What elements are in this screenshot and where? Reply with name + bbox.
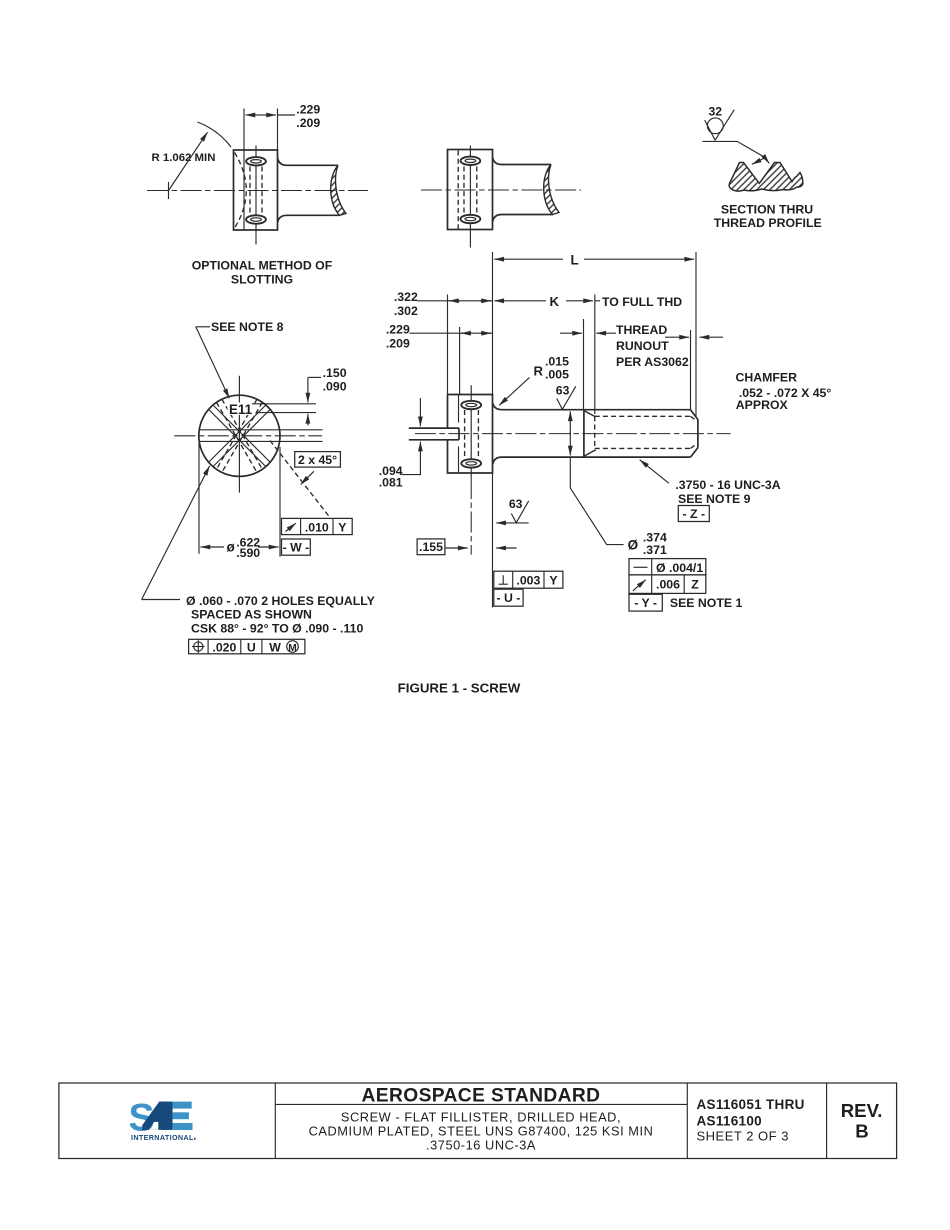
top view shank break sliver (hatched): [544, 165, 559, 215]
svg-text:THREAD PROFILE: THREAD PROFILE: [714, 216, 822, 230]
svg-text:SEE NOTE 1: SEE NOTE 1: [670, 596, 743, 610]
2 x 45 box: [295, 452, 341, 468]
svg-text:SECTION THRU: SECTION THRU: [721, 203, 813, 217]
left view hidden hole walls: [249, 167, 251, 216]
svg-text:63: 63: [556, 383, 570, 397]
svg-text:.155: .155: [419, 540, 443, 554]
head right face extension line: [492, 473, 494, 608]
svg-text:SCREW - FLAT FILLISTER, DRILLE: SCREW - FLAT FILLISTER, DRILLED HEAD,: [341, 1109, 621, 1124]
slot side edges: [458, 395, 460, 423]
E11 marking label: [228, 403, 255, 416]
leader double arrows to thread flanks: [752, 158, 765, 165]
full thread extension line: [594, 295, 596, 415]
straightness frame: [629, 559, 706, 575]
svg-text:.322: .322: [394, 290, 418, 304]
svg-text:- Y -: - Y -: [634, 596, 657, 610]
dimension .150/.090 extension lines: [252, 403, 316, 405]
slot position chords horizontal: [199, 429, 322, 431]
diameter .374/.371 leader: [570, 457, 623, 544]
head left face extension line: [447, 295, 449, 395]
svg-text:R: R: [534, 364, 544, 379]
svg-text:PER AS3062: PER AS3062: [616, 355, 689, 369]
svg-text:.010: .010: [305, 520, 329, 534]
svg-text:M: M: [288, 643, 297, 654]
dimension L arrows: [494, 258, 563, 260]
top view bottom drilled hole: [461, 215, 481, 223]
bottom drilled hole: [461, 459, 481, 467]
left view shank top edge with fillet: [278, 158, 339, 166]
svg-text:CHAMFER: CHAMFER: [736, 371, 798, 385]
thread minor diameter hidden lines: [594, 416, 596, 448]
svg-text:THREAD: THREAD: [616, 323, 667, 337]
diameter .622/.590 extension lines: [198, 443, 200, 554]
dimension .322/.302 line and arrows: [418, 300, 493, 302]
diameter .374/.371 arrows: [569, 411, 571, 435]
svg-text:E11: E11: [229, 402, 253, 417]
svg-text:- Z -: - Z -: [683, 507, 706, 521]
R 1.062 MIN arc: [198, 122, 232, 147]
title block divider number/rev: [826, 1083, 828, 1159]
chamfer arrows: [665, 336, 689, 338]
thread runout extension line: [583, 319, 585, 410]
left view hidden slot curve: [235, 153, 247, 229]
svg-text:.006: .006: [656, 578, 680, 592]
SAE logo: [129, 1096, 197, 1142]
.3750-16 UNC-3A leader: [640, 460, 669, 483]
dimension .155 box: [417, 539, 445, 555]
thread profile section (hatched): [729, 163, 803, 192]
svg-text:.371: .371: [643, 543, 667, 557]
datum Y box: [629, 594, 662, 611]
svg-text:Z: Z: [691, 578, 699, 592]
R fillet leader: [499, 378, 529, 406]
left view vertical centerline: [255, 146, 257, 245]
title block outer border: [59, 1083, 897, 1159]
svg-text:K: K: [550, 294, 560, 309]
svg-text:.3750 - 16 UNC-3A: .3750 - 16 UNC-3A: [675, 478, 780, 492]
slot position chords 60deg dashed: [216, 402, 256, 472]
holes note leader: [142, 599, 180, 601]
title block horizontal divider: [275, 1103, 687, 1105]
2 x 45 leader: [301, 471, 314, 484]
slot projection top edge: [409, 427, 459, 429]
svg-text:.003: .003: [516, 574, 540, 588]
svg-text:FIGURE 1 - SCREW: FIGURE 1 - SCREW: [398, 681, 521, 696]
left view horizontal centerline: [147, 190, 368, 192]
dimension .150/.090 arrows: [307, 377, 309, 402]
svg-text:TO FULL THD: TO FULL THD: [602, 295, 682, 309]
slot position chords 120deg dashed: [222, 402, 262, 472]
svg-text:.302: .302: [394, 304, 418, 318]
slot projection bottom edge: [409, 439, 459, 441]
title block divider center/number: [686, 1083, 688, 1159]
svg-text:.020: .020: [212, 640, 236, 654]
svg-text:SHEET 2 OF 3: SHEET 2 OF 3: [697, 1129, 789, 1144]
svg-text:W: W: [269, 640, 281, 654]
slot edge extension line: [459, 327, 461, 395]
head outline: [448, 395, 493, 474]
R 1.062 MIN leader: [169, 132, 208, 190]
svg-text:.081: .081: [379, 476, 403, 490]
svg-text:.3750-16 UNC-3A: .3750-16 UNC-3A: [426, 1137, 536, 1152]
svg-text:.150: .150: [323, 366, 347, 380]
shank bottom edge with fillet: [493, 457, 691, 465]
dimension L extension lines: [492, 252, 494, 395]
circular runout frame .006 Z: [629, 575, 706, 594]
title block divider logo/center: [274, 1083, 276, 1159]
svg-text:L: L: [571, 253, 579, 268]
top view head outline: [448, 150, 493, 230]
svg-text:.209: .209: [296, 116, 320, 130]
top view shank bottom edge with fillet: [493, 215, 554, 223]
svg-text:Y: Y: [338, 520, 346, 534]
svg-text:SLOTTING: SLOTTING: [231, 273, 293, 287]
slot position chords 135deg solid: [213, 405, 270, 462]
dimension .229/.209 (left view) arrows: [246, 114, 261, 116]
left view shank break sliver (hatched): [331, 165, 346, 215]
point chamfer: [691, 410, 698, 420]
top view shank top edge with fillet: [493, 157, 552, 165]
top view hidden slot bottom line: [457, 151, 459, 230]
main view vertical centerline through head: [470, 385, 472, 478]
svg-text:SEE NOTE 8: SEE NOTE 8: [211, 320, 284, 334]
svg-text:ø: ø: [227, 539, 236, 554]
svg-text:Y: Y: [549, 574, 557, 588]
svg-text:- W -: - W -: [283, 541, 310, 555]
perpendicularity frame .003 Y: [494, 571, 563, 588]
left view top drilled hole: [246, 157, 266, 165]
diameter .622/.590 arrows: [201, 546, 225, 548]
runout frame .010 Y: [282, 518, 353, 534]
svg-text:U: U: [247, 640, 256, 654]
end view horizontal centerline: [174, 435, 322, 437]
position frame .020 U W M: [189, 639, 305, 654]
svg-text:.209: .209: [386, 336, 410, 350]
svg-text:Ø .004/1: Ø .004/1: [656, 561, 703, 575]
svg-text:63: 63: [509, 497, 523, 511]
thread runout line: [583, 410, 585, 457]
svg-text:SEE NOTE 9: SEE NOTE 9: [678, 492, 751, 506]
main view horizontal centerline: [415, 433, 731, 435]
svg-text:APPROX: APPROX: [736, 398, 789, 412]
svg-text:OPTIONAL METHOD OF: OPTIONAL METHOD OF: [192, 259, 333, 273]
left view shank bottom edge with fillet: [278, 215, 341, 223]
datum Z box: [678, 506, 709, 522]
svg-text:Ø: Ø: [628, 538, 639, 553]
top drilled hole: [461, 401, 481, 409]
svg-text:RUNOUT: RUNOUT: [616, 339, 669, 353]
svg-text:.590: .590: [236, 546, 260, 560]
dimension .229/.209 (left view) extension line: [277, 109, 279, 151]
dimension .155 arrows: [445, 547, 468, 549]
end view vertical centerline: [238, 376, 240, 493]
thread runout cone edges: [584, 411, 596, 417]
top view hidden hole walls: [463, 167, 465, 216]
svg-text:AEROSPACE STANDARD: AEROSPACE STANDARD: [362, 1086, 601, 1107]
svg-text:.015: .015: [545, 354, 569, 368]
hidden hole walls: [464, 410, 466, 459]
thread runout arrows: [560, 332, 582, 334]
svg-text:.090: .090: [323, 380, 347, 394]
slot position chords 45deg solid: [213, 409, 270, 466]
chamfer extension line: [690, 330, 692, 410]
surface symbol baseline and leader: [703, 141, 766, 157]
datum W box: [282, 539, 311, 555]
left view radius center cross: [168, 182, 170, 199]
svg-text:.229: .229: [296, 102, 320, 116]
svg-text:.005: .005: [545, 367, 569, 381]
datum U box: [494, 589, 523, 606]
svg-text:R 1.062 MIN: R 1.062 MIN: [152, 152, 216, 164]
svg-text:Ø .060 - .070 2 HOLES EQUALLY: Ø .060 - .070 2 HOLES EQUALLY: [186, 594, 375, 608]
left view bottom drilled hole: [246, 215, 266, 223]
svg-text:2 x 45°: 2 x 45°: [298, 453, 337, 467]
svg-text:REV.: REV.: [841, 1100, 883, 1121]
svg-text:- U -: - U -: [496, 591, 520, 605]
dimension K arrows: [494, 300, 546, 302]
dashed slot extension outside circle: [270, 441, 331, 519]
top view vertical centerline: [469, 146, 471, 248]
dimension .229/.209 line and arrows: [410, 332, 493, 334]
top view top drilled hole: [461, 157, 481, 165]
svg-text:.229: .229: [386, 322, 410, 336]
slot bottom face: [458, 428, 460, 440]
svg-text:AS116051 THRU: AS116051 THRU: [697, 1097, 805, 1112]
svg-text:B: B: [855, 1120, 868, 1141]
svg-text:AS116100: AS116100: [697, 1113, 762, 1128]
SEE NOTE 8 leader: [196, 326, 210, 328]
top view horizontal centerline: [421, 189, 581, 191]
end view head circle: [199, 395, 280, 476]
left view slot edge line: [243, 109, 245, 231]
svg-text:SPACED AS SHOWN: SPACED AS SHOWN: [191, 608, 312, 622]
dimension .094/.081 arrows: [419, 398, 421, 426]
svg-text:CADMIUM PLATED, STEEL UNS G874: CADMIUM PLATED, STEEL UNS G87400, 125 KS…: [309, 1123, 654, 1138]
svg-text:INTERNATIONAL.: INTERNATIONAL.: [131, 1133, 196, 1142]
shank top edge with fillet: [493, 402, 691, 410]
svg-text:CSK 88° - 92° TO Ø .090 - .11: CSK 88° - 92° TO Ø .090 - .110: [191, 621, 363, 635]
left view head outline: [234, 150, 278, 230]
svg-text:32: 32: [709, 105, 723, 119]
